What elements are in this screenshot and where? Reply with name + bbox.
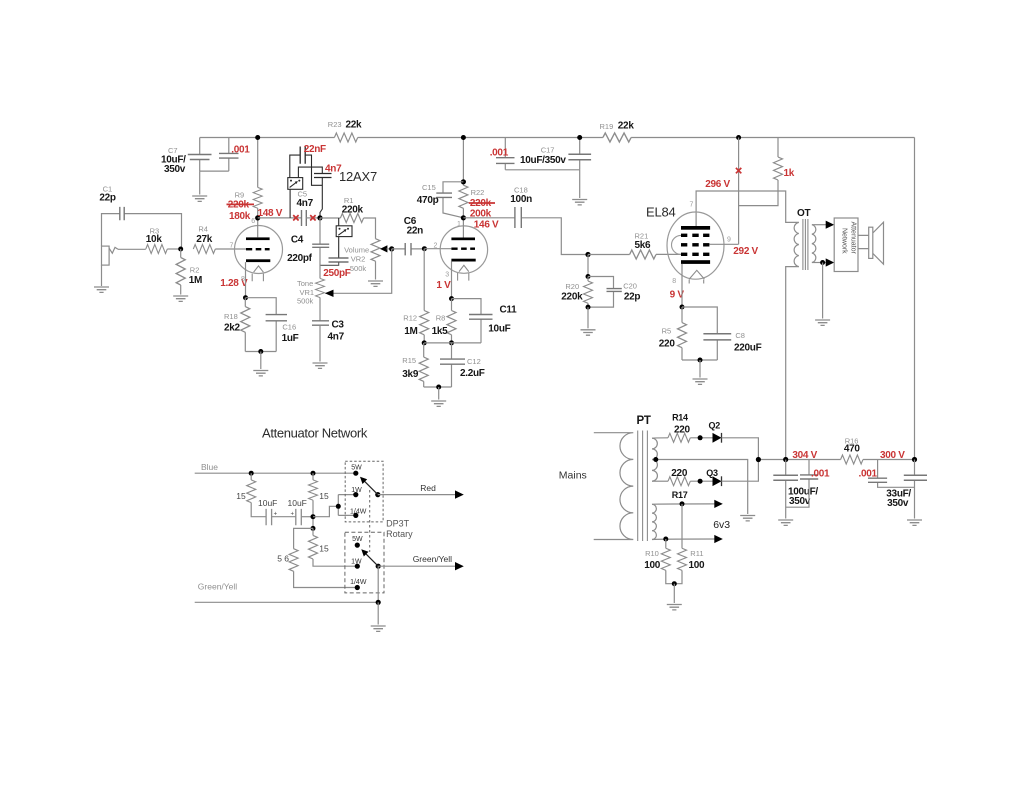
node R22 top junction xyxy=(461,179,466,184)
svg-text:15: 15 xyxy=(236,491,246,501)
X cut mark right of C5 xyxy=(310,215,315,220)
node 146V plate junction xyxy=(461,215,466,220)
triode V2 12AX7b envelope xyxy=(440,226,487,273)
node heater bottom tap xyxy=(663,537,668,542)
svg-text:220: 220 xyxy=(674,425,691,436)
svg-text:180k: 180k xyxy=(229,211,251,222)
svg-text:+: + xyxy=(274,512,278,518)
svg-text:22k: 22k xyxy=(618,121,635,132)
ground R20 xyxy=(581,330,596,335)
svg-text:Tone: Tone xyxy=(297,279,313,288)
svg-text:VR2: VR2 xyxy=(351,255,366,264)
wiper VR2 arrow xyxy=(380,245,388,252)
svg-text:R20: R20 xyxy=(565,282,579,291)
ground V2 cathode xyxy=(431,401,446,406)
node C5 output junction xyxy=(317,215,322,220)
svg-text:500k: 500k xyxy=(350,264,367,273)
wire Blue line xyxy=(195,472,356,474)
diode Q2 xyxy=(709,421,722,443)
svg-text:5 6: 5 6 xyxy=(277,554,289,564)
resistor R19 22k xyxy=(600,121,635,143)
capacitor C5 4n7 (bypassed) xyxy=(297,189,321,226)
svg-text:7: 7 xyxy=(230,243,234,250)
capacitor 100uF/350v xyxy=(773,460,818,519)
ground jack xyxy=(94,287,109,292)
arrow heater bottom xyxy=(714,535,723,543)
wire to ground attenuator xyxy=(377,602,379,624)
transformer OT primary xyxy=(794,222,799,266)
svg-text:.001: .001 xyxy=(811,469,830,480)
svg-text:500k: 500k xyxy=(297,297,314,306)
wire SW2 top tap xyxy=(338,218,340,226)
node rail EL84 feed xyxy=(736,135,741,140)
wire heater bottom 6v3 xyxy=(652,538,715,541)
X cut mark screen feed xyxy=(736,168,741,173)
wire R20 tap xyxy=(587,255,589,277)
svg-text:Rotary: Rotary xyxy=(386,529,413,539)
ground 33uF xyxy=(907,520,922,525)
svg-text:Volume: Volume xyxy=(344,245,369,254)
transformer PT primary xyxy=(594,433,634,540)
svg-text:R22: R22 xyxy=(471,188,485,197)
svg-text:Attenuator: Attenuator xyxy=(850,222,857,255)
node 304V diode junction xyxy=(756,457,761,462)
svg-text:220: 220 xyxy=(659,339,676,350)
ground 100uF xyxy=(778,520,793,525)
resistor R4 27k xyxy=(193,225,246,254)
svg-text:Attenuator Network: Attenuator Network xyxy=(262,426,368,441)
capacitor C3 4n7 xyxy=(312,320,345,362)
svg-text:10k: 10k xyxy=(146,234,163,245)
svg-text:EL84: EL84 xyxy=(646,205,676,220)
ground OT secondary xyxy=(815,320,830,325)
resistor R12 1M grid leak xyxy=(403,249,428,343)
svg-text:100n: 100n xyxy=(510,194,532,205)
svg-text:3: 3 xyxy=(445,272,449,279)
wire V1 cathode down xyxy=(245,262,247,298)
pentode EL84 grid g2 xyxy=(681,243,709,246)
triode V2 grid xyxy=(451,248,475,250)
svg-text:8: 8 xyxy=(672,278,676,285)
svg-text:350v: 350v xyxy=(887,498,909,509)
svg-text:15: 15 xyxy=(319,544,329,554)
wire OT secondary bottom xyxy=(812,262,827,264)
svg-text:.001: .001 xyxy=(859,469,878,480)
triode V1 cathode xyxy=(246,259,270,262)
wire GreenYell output xyxy=(378,565,455,567)
svg-text:12AX7: 12AX7 xyxy=(339,169,377,184)
svg-text:R14: R14 xyxy=(672,413,688,423)
transformer OT core xyxy=(803,219,808,270)
wire V2 plate to node xyxy=(462,218,464,238)
wire tap to switch pole1 xyxy=(313,495,356,517)
wire OT primary bottom to 304V xyxy=(786,267,799,460)
svg-text:100: 100 xyxy=(644,560,661,571)
resistor R17 220 xyxy=(668,468,713,500)
wire HT top lead xyxy=(652,437,668,439)
node GreenYell junction xyxy=(376,600,381,605)
capacitor C6 22n xyxy=(392,216,425,255)
node Blue/15b xyxy=(311,471,316,476)
svg-text:C8: C8 xyxy=(735,331,745,340)
ground C3 xyxy=(313,363,328,368)
wire V1 plate line to C5 xyxy=(258,217,302,219)
svg-text:C4: C4 xyxy=(291,235,304,246)
svg-text:2: 2 xyxy=(434,243,438,250)
node bottom junction xyxy=(436,385,441,390)
svg-text:Network: Network xyxy=(841,228,848,254)
resistor 5.6 xyxy=(277,528,357,587)
capacitor .001 mod at C17 xyxy=(490,138,515,170)
resistor 15 first xyxy=(236,473,266,517)
diode Q3 xyxy=(706,468,721,486)
triode V2 heater xyxy=(458,265,469,280)
svg-text:220k: 220k xyxy=(561,292,583,303)
svg-text:300 V: 300 V xyxy=(880,450,905,461)
svg-text:R12: R12 xyxy=(403,314,417,323)
node R17/Q3 xyxy=(698,479,703,484)
capacitor C12 2.2uF xyxy=(440,343,485,387)
capacitor .001 mod at 33uF xyxy=(859,460,915,488)
wire Green/Yell bottom line xyxy=(195,601,379,603)
resistor R14 220 xyxy=(668,413,713,443)
svg-text:4n7: 4n7 xyxy=(297,198,314,209)
svg-text:470p: 470p xyxy=(417,195,439,206)
node B+ rail / R9 junction xyxy=(255,135,260,140)
node HT centre tap xyxy=(653,457,658,462)
svg-text:22nF: 22nF xyxy=(304,144,326,155)
transformer PT HT secondary xyxy=(652,438,657,481)
wire C17 bottom bus xyxy=(505,170,579,198)
svg-text:7: 7 xyxy=(690,202,694,209)
node R18/C16 bottom junction xyxy=(258,349,263,354)
resistor R16 470 xyxy=(841,437,863,464)
node 15/5.6 junction xyxy=(311,526,316,531)
switch box SW1 mod xyxy=(288,178,303,190)
svg-text:100: 100 xyxy=(689,560,706,571)
svg-text:R4: R4 xyxy=(198,225,208,234)
wire right border B+ feed xyxy=(914,138,916,460)
input jack J1 xyxy=(102,246,119,265)
wire to ground V2 cathode xyxy=(438,387,440,400)
resistor 1k screen mod xyxy=(739,138,795,206)
svg-text:.001: .001 xyxy=(231,144,250,155)
svg-text:.001: .001 xyxy=(490,147,509,158)
wire box to speaker xyxy=(858,235,869,248)
svg-text:C16: C16 xyxy=(282,323,296,332)
resistor R2 1M xyxy=(176,249,202,295)
wire EL84 screen pin 9 xyxy=(709,243,738,245)
wire Red output xyxy=(378,494,456,496)
node B+ rail / R22 feed xyxy=(461,135,466,140)
wire 304V segment xyxy=(758,459,840,461)
node R20 top xyxy=(586,274,591,279)
pentode EL84 plate xyxy=(681,226,710,230)
svg-text:350v: 350v xyxy=(164,164,186,175)
svg-text:R8: R8 xyxy=(436,314,446,323)
svg-text:Red: Red xyxy=(420,483,436,493)
triode V2 plate xyxy=(451,238,475,241)
ground V1 cathode xyxy=(253,371,268,376)
svg-text:10uF/350v: 10uF/350v xyxy=(520,155,566,166)
svg-text:Q2: Q2 xyxy=(709,421,721,431)
svg-text:22n: 22n xyxy=(407,226,424,237)
transformer PT heater winding xyxy=(652,504,656,539)
svg-text:+: + xyxy=(291,512,295,518)
capacitor C11 10uF xyxy=(452,299,518,343)
node 10uF/15 junction xyxy=(311,514,316,519)
wire to ground OT secondary xyxy=(822,263,824,319)
resistor R11 100 xyxy=(674,504,705,584)
svg-text:8: 8 xyxy=(241,276,245,283)
svg-text:1M: 1M xyxy=(189,275,202,286)
resistor R22 200k plate load xyxy=(459,138,495,220)
wire to ground R20 xyxy=(587,307,589,328)
capacitor .001 mod at C7 xyxy=(219,138,250,172)
wire pole2 common down xyxy=(377,566,379,602)
triode V2 cathode xyxy=(451,259,475,262)
speaker LS1 xyxy=(869,222,884,264)
potentiometer VR2 Volume 500k xyxy=(344,239,380,280)
svg-text:R10: R10 xyxy=(645,549,659,558)
svg-text:5W: 5W xyxy=(352,536,363,543)
wire box SW1 top to 22nF xyxy=(290,155,300,178)
arrow Red output xyxy=(455,490,464,498)
pentode EL84 envelope xyxy=(667,212,724,279)
wire V1 plate to node xyxy=(257,218,259,238)
svg-text:R5: R5 xyxy=(662,327,672,336)
svg-text:5k6: 5k6 xyxy=(635,240,652,251)
svg-text:Green/Yell: Green/Yell xyxy=(413,554,452,564)
node EL84 cathode xyxy=(680,305,685,310)
ground R5 xyxy=(693,379,708,384)
switch box SW2 mod xyxy=(336,226,352,237)
capacitor 10uF first xyxy=(258,498,296,525)
svg-text:10uF: 10uF xyxy=(258,498,277,508)
capacitor C7 10uF/350v xyxy=(161,138,212,176)
wire HT bottom lead xyxy=(652,480,668,482)
svg-text:296 V: 296 V xyxy=(705,179,730,190)
capacitor C18 100n xyxy=(463,186,588,255)
wire V2 grid xyxy=(424,248,451,250)
pentode EL84 g3 tie arc xyxy=(672,235,682,254)
arrow secondary bottom xyxy=(826,258,835,266)
resistor R20 220k xyxy=(561,277,592,308)
wire screen feed vertical (cut) xyxy=(738,138,740,245)
wire R5/C8 bottom xyxy=(682,359,717,361)
capacitor C16 1uF xyxy=(245,298,298,352)
arrow heater top xyxy=(714,500,723,508)
svg-text:220k: 220k xyxy=(342,205,364,216)
capacitor C4 220pf xyxy=(287,218,329,279)
svg-text:DP3T: DP3T xyxy=(386,519,410,529)
svg-text:C11: C11 xyxy=(500,305,518,316)
svg-text:1k: 1k xyxy=(784,168,795,179)
node Blue/15a xyxy=(249,471,254,476)
wire VR2 wiper to VR1 wiper xyxy=(333,249,392,293)
resistor R8 1k5 cathode xyxy=(432,299,456,343)
ground attenuator xyxy=(371,626,386,631)
resistor R21 5k6 xyxy=(588,232,681,260)
wire jack ground stem xyxy=(101,265,103,286)
triode V1 heater xyxy=(252,266,263,281)
node V2 cathode junction xyxy=(449,296,454,301)
attenuator network box xyxy=(834,218,858,272)
wire V2 cathode down xyxy=(451,262,453,299)
X cut mark left of C5 xyxy=(293,215,298,220)
wire HT centre tap xyxy=(656,460,748,515)
svg-text:1uF: 1uF xyxy=(282,333,299,344)
resistor R5 220 xyxy=(659,307,687,360)
svg-text:27k: 27k xyxy=(196,234,213,245)
svg-text:1 V: 1 V xyxy=(436,280,451,291)
node R12/R8 junction xyxy=(422,340,427,345)
svg-text:22p: 22p xyxy=(624,292,641,303)
transformer OT secondary xyxy=(812,225,816,263)
capacitor 33uF/350v xyxy=(886,460,927,519)
resistor R23 22k xyxy=(328,120,362,143)
pentode EL84 grid g1 xyxy=(681,253,709,256)
node R3/R2/R4 junction xyxy=(178,247,183,252)
node humdinger junction xyxy=(672,581,677,586)
wiper VR1 arrow xyxy=(325,290,334,297)
svg-text:Q3: Q3 xyxy=(706,468,718,478)
svg-text:470: 470 xyxy=(844,444,861,455)
switch pole 2 DP3T xyxy=(345,532,384,593)
triode V1 12AX7a envelope xyxy=(235,226,283,274)
triode V1 grid xyxy=(246,248,270,250)
wire heater top 6v3 xyxy=(652,503,715,505)
wire Q3 to 304V xyxy=(722,460,759,482)
triode V1 plate xyxy=(246,237,270,240)
ground R2 xyxy=(173,296,188,301)
wire to ground V1 cathode xyxy=(260,352,262,370)
rotary link dashed xyxy=(369,490,371,552)
svg-text:R2: R2 xyxy=(190,266,200,275)
node R20 bottom xyxy=(586,305,591,310)
svg-text:6v3: 6v3 xyxy=(713,519,730,531)
svg-text:Blue: Blue xyxy=(201,462,218,472)
svg-text:350v: 350v xyxy=(789,496,811,507)
svg-text:1: 1 xyxy=(457,221,461,228)
wire OT secondary top xyxy=(812,224,827,226)
node EL84 grid junction xyxy=(585,252,590,257)
capacitor 4n7 mod xyxy=(298,163,342,218)
ground C17 xyxy=(572,200,587,205)
ground humdinger xyxy=(667,605,682,610)
wire R15/C12 bottom xyxy=(424,386,452,388)
svg-text:2k2: 2k2 xyxy=(224,323,241,334)
resistor R18 2k2 xyxy=(224,298,250,352)
svg-text:C3: C3 xyxy=(332,320,345,331)
node VR2 wiper junction xyxy=(389,246,394,251)
svg-text:220: 220 xyxy=(671,468,688,479)
svg-text:146 V: 146 V xyxy=(474,220,499,231)
node R5 bottom xyxy=(698,358,703,363)
svg-text:1M: 1M xyxy=(404,326,417,337)
node rail C17 xyxy=(577,135,582,140)
wire EL84 plate to OT xyxy=(696,191,799,226)
switch pole 1 DP3T xyxy=(345,461,383,522)
svg-text:R19: R19 xyxy=(600,122,614,131)
capacitor .001 mod at 100uF xyxy=(786,460,830,508)
svg-text:R9: R9 xyxy=(235,191,245,200)
node heater top tap xyxy=(680,501,685,506)
svg-text:R18: R18 xyxy=(224,312,238,321)
wire EL84 cathode down xyxy=(681,264,683,307)
arrow GreenYell output xyxy=(455,562,464,570)
svg-text:10uF: 10uF xyxy=(288,498,307,508)
capacitor C20 22p xyxy=(588,277,640,308)
svg-text:C17: C17 xyxy=(541,146,555,155)
svg-text:220uF: 220uF xyxy=(734,343,762,354)
pentode EL84 heater xyxy=(689,270,704,283)
svg-text:C12: C12 xyxy=(467,357,481,366)
capacitor 10uF second xyxy=(288,498,314,525)
svg-text:C15: C15 xyxy=(422,183,436,192)
node V1 cathode junction xyxy=(243,295,248,300)
capacitor 250pF mod xyxy=(320,258,351,279)
svg-text:Mains: Mains xyxy=(559,470,587,482)
svg-text:10uF: 10uF xyxy=(488,324,510,335)
resistor R3 10k xyxy=(146,227,181,254)
svg-text:9: 9 xyxy=(727,237,731,244)
svg-text:22k: 22k xyxy=(346,120,363,131)
svg-text:OT: OT xyxy=(797,208,810,219)
resistor R9 180k plate load xyxy=(227,138,263,223)
ground HT centre tap xyxy=(740,516,755,521)
svg-text:Green/Yell: Green/Yell xyxy=(198,582,237,592)
wire box SW1 to plate line xyxy=(289,189,291,218)
svg-text:304 V: 304 V xyxy=(792,450,817,461)
transformer PT core xyxy=(638,431,648,542)
svg-text:220pf: 220pf xyxy=(287,253,313,264)
wire cathode node bus xyxy=(424,342,481,344)
resistor 15 third xyxy=(309,528,358,566)
wire to ground humdinger xyxy=(673,584,675,603)
wire SW2 to 250pF xyxy=(338,237,340,258)
svg-text:292 V: 292 V xyxy=(733,246,758,257)
resistor R10 100 xyxy=(644,539,674,584)
node 148V plate junction xyxy=(255,215,260,220)
svg-text:1/4W: 1/4W xyxy=(350,579,367,586)
pentode EL84 cathode xyxy=(681,260,710,264)
ground C7 xyxy=(192,196,207,201)
resistor R1 220k xyxy=(320,196,376,239)
capacitor C15 470p xyxy=(417,182,464,218)
node secondary ground tap xyxy=(820,260,825,265)
ground VR2 xyxy=(368,281,383,286)
svg-text:R17: R17 xyxy=(672,490,688,500)
svg-text:6: 6 xyxy=(251,218,255,225)
svg-text:R23: R23 xyxy=(328,120,342,129)
wire to ground R5 xyxy=(699,360,701,378)
svg-text:R15: R15 xyxy=(402,356,416,365)
resistor R15 3k9 xyxy=(402,343,428,387)
svg-text:R11: R11 xyxy=(690,549,703,558)
svg-text:1/4W: 1/4W xyxy=(350,508,367,515)
svg-text:1k5: 1k5 xyxy=(432,326,449,337)
svg-text:15: 15 xyxy=(319,491,329,501)
node 300V junction xyxy=(912,457,917,462)
pentode EL84 grid g3 xyxy=(681,234,709,237)
svg-text:22p: 22p xyxy=(99,193,116,204)
node 304V OT junction xyxy=(783,457,788,462)
arrow secondary top xyxy=(826,221,835,229)
svg-text:PT: PT xyxy=(637,415,651,427)
svg-text:C20: C20 xyxy=(623,282,637,291)
node tap junction xyxy=(336,504,341,509)
